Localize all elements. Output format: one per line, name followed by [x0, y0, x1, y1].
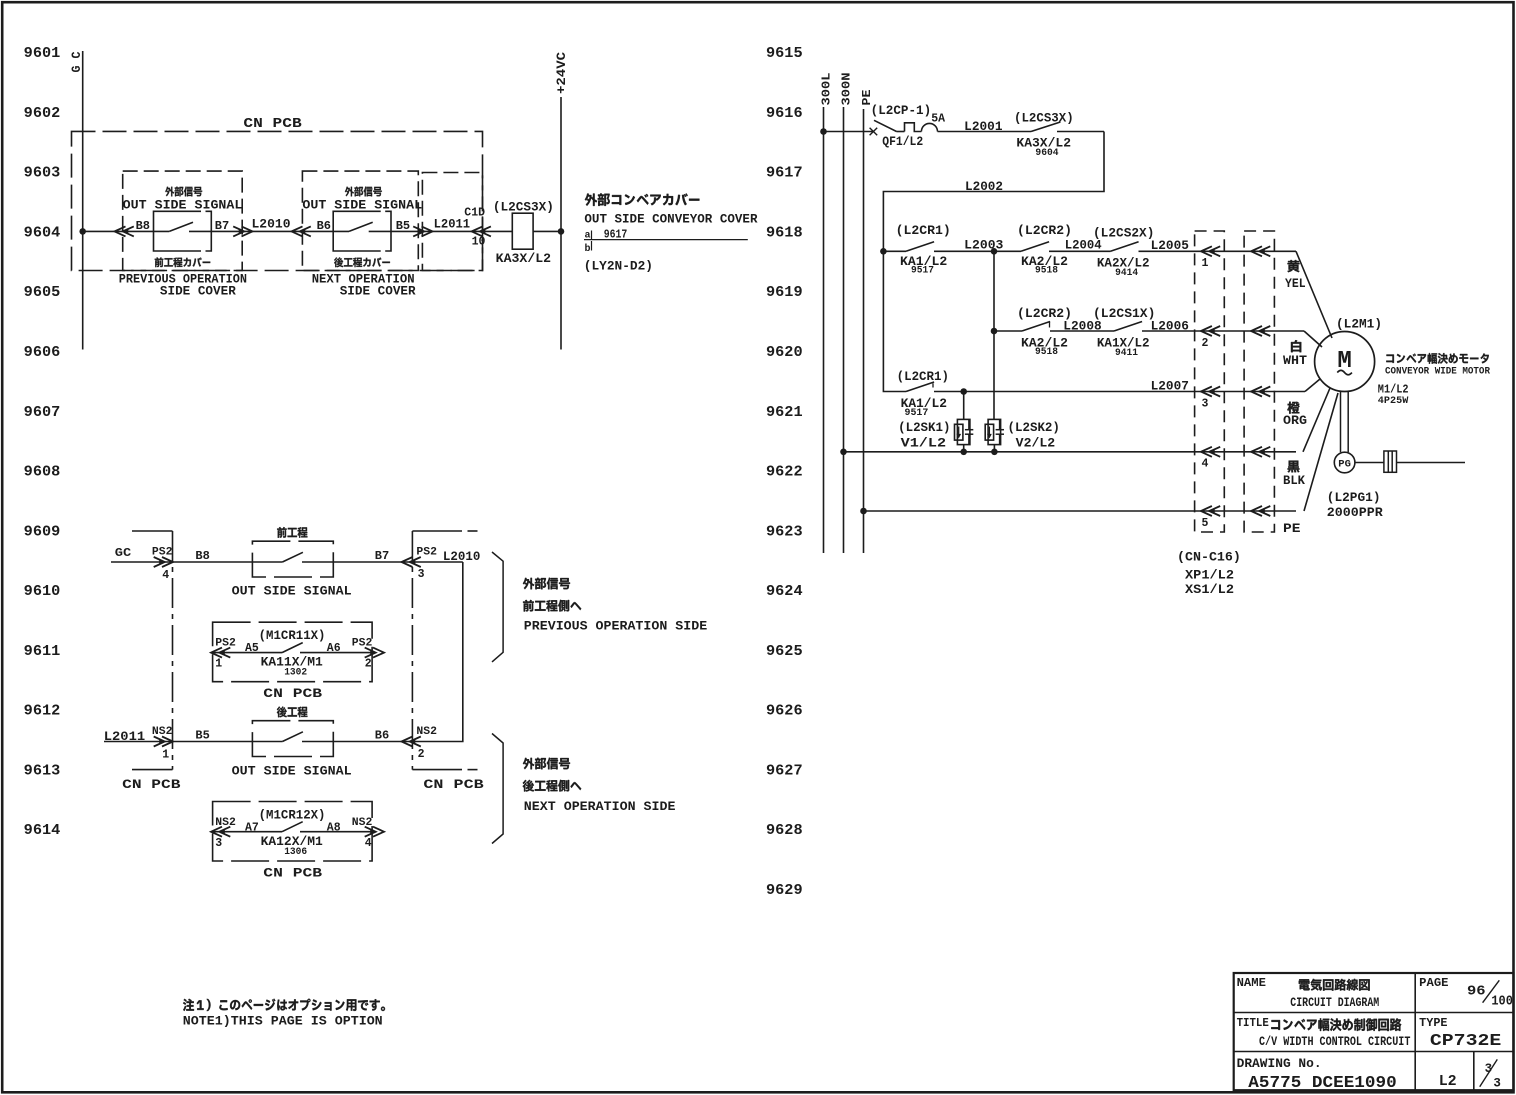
svg-text:NS2: NS2 — [152, 726, 173, 738]
svg-text:(L2CS3X): (L2CS3X) — [493, 201, 554, 215]
svg-text:9628: 9628 — [766, 821, 803, 839]
svg-text:100: 100 — [1491, 994, 1513, 1009]
svg-text:(L2SK2): (L2SK2) — [1008, 421, 1060, 435]
svg-text:L2001: L2001 — [964, 120, 1002, 134]
svg-text:(L2CR1): (L2CR1) — [897, 370, 949, 384]
svg-text:9518: 9518 — [1035, 347, 1058, 358]
svg-text:300N: 300N — [841, 72, 854, 105]
svg-text:V2/L2: V2/L2 — [1016, 436, 1056, 451]
svg-text:9619: 9619 — [766, 283, 803, 301]
svg-text:9622: 9622 — [766, 463, 803, 481]
svg-text:3: 3 — [215, 837, 222, 850]
svg-text:(L2CS3X): (L2CS3X) — [1014, 111, 1074, 125]
svg-text:5: 5 — [1202, 517, 1209, 530]
svg-text:2: 2 — [365, 657, 372, 670]
svg-text:L2002: L2002 — [965, 180, 1003, 194]
svg-text:(L2CS2X): (L2CS2X) — [1093, 227, 1154, 241]
svg-text:A5775 DCEE1090: A5775 DCEE1090 — [1248, 1074, 1396, 1093]
svg-text:NS2: NS2 — [352, 817, 373, 829]
svg-text:9617: 9617 — [766, 164, 803, 182]
svg-text:CN PCB: CN PCB — [263, 686, 322, 701]
svg-text:9604: 9604 — [24, 223, 61, 241]
svg-text:9603: 9603 — [24, 164, 61, 182]
svg-text:L2006: L2006 — [1151, 320, 1189, 334]
svg-text:BLK: BLK — [1283, 474, 1305, 488]
svg-text:A5: A5 — [245, 642, 259, 655]
svg-text:L2008: L2008 — [1063, 320, 1101, 334]
svg-text:YEL: YEL — [1285, 277, 1306, 291]
svg-text:V1/L2: V1/L2 — [901, 436, 947, 451]
svg-text:1302: 1302 — [284, 668, 307, 679]
svg-text:CN PCB: CN PCB — [122, 777, 181, 792]
svg-text:9517: 9517 — [911, 265, 934, 276]
svg-text:QF1/L2: QF1/L2 — [882, 135, 923, 149]
svg-text:CN PCB: CN PCB — [243, 116, 302, 132]
svg-text:1: 1 — [215, 657, 222, 670]
svg-text:9616: 9616 — [766, 104, 803, 122]
svg-text:NS2: NS2 — [416, 726, 437, 738]
svg-text:GC: GC — [115, 546, 131, 560]
svg-text:2: 2 — [418, 748, 425, 761]
svg-text:PE: PE — [1283, 522, 1301, 536]
svg-text:L2010: L2010 — [443, 550, 481, 564]
svg-text:9624: 9624 — [766, 582, 803, 600]
svg-text:PS2: PS2 — [416, 546, 437, 558]
svg-text:9613: 9613 — [24, 761, 61, 779]
svg-text:TYPE: TYPE — [1419, 1017, 1447, 1030]
svg-text:300L: 300L — [821, 72, 834, 105]
svg-text:L2011: L2011 — [104, 730, 145, 744]
svg-text:9625: 9625 — [766, 642, 803, 660]
svg-text:(L2CR2): (L2CR2) — [1017, 224, 1072, 238]
svg-text:L2003: L2003 — [964, 238, 1003, 252]
svg-text:(L2CP-1): (L2CP-1) — [871, 104, 932, 118]
svg-text:(L2CS1X): (L2CS1X) — [1093, 307, 1155, 321]
svg-text:9602: 9602 — [24, 104, 61, 122]
svg-text:9611: 9611 — [24, 642, 61, 660]
svg-text:9615: 9615 — [766, 44, 803, 62]
svg-text:L2011: L2011 — [434, 218, 471, 232]
svg-text:9607: 9607 — [24, 403, 61, 421]
svg-text:9614: 9614 — [24, 821, 61, 839]
svg-text:4: 4 — [365, 837, 372, 850]
svg-text:WHT: WHT — [1283, 354, 1308, 368]
svg-text:9605: 9605 — [24, 283, 61, 301]
svg-text:OUT SIDE SIGNAL: OUT SIDE SIGNAL — [232, 763, 352, 778]
svg-text:CP732E: CP732E — [1430, 1032, 1501, 1051]
svg-text:L2: L2 — [1439, 1073, 1457, 1090]
svg-text:XS1/L2: XS1/L2 — [1185, 583, 1234, 597]
svg-text:9411: 9411 — [1115, 348, 1138, 359]
svg-text:KA3X/L2: KA3X/L2 — [496, 251, 552, 266]
svg-text:OUT SIDE CONVEYOR COVER: OUT SIDE CONVEYOR COVER — [584, 212, 757, 227]
svg-text:A7: A7 — [245, 822, 259, 835]
svg-text:SIDE COVER: SIDE COVER — [340, 283, 416, 298]
svg-text:PS2: PS2 — [152, 546, 173, 558]
svg-text:NS2: NS2 — [215, 817, 236, 829]
svg-text:3: 3 — [1202, 397, 1209, 410]
svg-text:(M1CR12X): (M1CR12X) — [259, 807, 326, 822]
svg-text:9517: 9517 — [905, 408, 929, 419]
svg-text:2000PPR: 2000PPR — [1327, 506, 1384, 520]
svg-text:A8: A8 — [327, 822, 341, 835]
svg-text:(L2CR1): (L2CR1) — [896, 224, 951, 238]
svg-text:B5: B5 — [396, 219, 410, 233]
svg-text:PAGE: PAGE — [1419, 977, 1448, 990]
svg-text:b: b — [585, 243, 591, 255]
svg-text:L2005: L2005 — [1151, 239, 1189, 253]
svg-text:B8: B8 — [195, 549, 209, 563]
svg-text:PREVIOUS OPERATION SIDE: PREVIOUS OPERATION SIDE — [524, 619, 708, 634]
svg-text:B6: B6 — [375, 728, 389, 742]
svg-text:9626: 9626 — [766, 702, 803, 720]
svg-text:9621: 9621 — [766, 403, 803, 421]
svg-text:4P25W: 4P25W — [1378, 395, 1409, 407]
svg-text:OUT SIDE SIGNAL: OUT SIDE SIGNAL — [123, 198, 243, 213]
svg-text:L2010: L2010 — [252, 218, 291, 232]
svg-text:(CN-C16): (CN-C16) — [1177, 551, 1241, 565]
svg-text:9606: 9606 — [24, 343, 61, 361]
svg-text:(L2M1): (L2M1) — [1336, 318, 1382, 332]
svg-text:(L2SK1): (L2SK1) — [898, 421, 950, 435]
svg-text:PE: PE — [861, 89, 874, 105]
svg-text:9629: 9629 — [766, 881, 803, 899]
svg-text:10: 10 — [472, 236, 486, 249]
svg-text:B6: B6 — [317, 219, 331, 233]
svg-text:9518: 9518 — [1035, 265, 1058, 276]
svg-text:4: 4 — [1202, 458, 1209, 471]
svg-text:ORG: ORG — [1283, 414, 1307, 428]
svg-text:CIRCUIT DIAGRAM: CIRCUIT DIAGRAM — [1290, 995, 1379, 1010]
svg-text:CONVEYOR WIDE MOTOR: CONVEYOR WIDE MOTOR — [1385, 366, 1490, 377]
svg-text:L2004: L2004 — [1065, 238, 1102, 252]
svg-text:9604: 9604 — [1035, 148, 1058, 159]
svg-text:PS2: PS2 — [215, 638, 236, 650]
svg-text:(LY2N-D2): (LY2N-D2) — [584, 258, 653, 273]
svg-text:CN PCB: CN PCB — [263, 866, 322, 881]
svg-text:4: 4 — [162, 569, 169, 582]
svg-text:PG: PG — [1338, 459, 1351, 471]
svg-text:C/V WIDTH CONTROL CIRCUIT: C/V WIDTH CONTROL CIRCUIT — [1259, 1034, 1411, 1049]
svg-text:1306: 1306 — [284, 847, 307, 858]
svg-text:9414: 9414 — [1115, 268, 1138, 279]
svg-text:96: 96 — [1467, 985, 1486, 1000]
svg-text:XP1/L2: XP1/L2 — [1185, 569, 1234, 583]
svg-text:B7: B7 — [375, 549, 389, 563]
svg-text:SIDE COVER: SIDE COVER — [160, 283, 236, 298]
svg-text:OUT SIDE SIGNAL: OUT SIDE SIGNAL — [232, 584, 352, 599]
svg-text:B5: B5 — [195, 729, 209, 743]
svg-text:G C: G C — [70, 51, 84, 72]
svg-text:B7: B7 — [215, 219, 229, 233]
svg-text:OUT SIDE SIGNAL: OUT SIDE SIGNAL — [302, 198, 422, 213]
svg-text:9618: 9618 — [766, 223, 803, 241]
svg-text:B8: B8 — [136, 219, 150, 233]
svg-text:9601: 9601 — [24, 44, 61, 62]
svg-text:+24VC: +24VC — [555, 51, 569, 94]
svg-text:9608: 9608 — [24, 463, 61, 481]
svg-text:DRAWING No.: DRAWING No. — [1237, 1057, 1322, 1071]
svg-text:2: 2 — [1202, 337, 1209, 350]
svg-text:3: 3 — [1493, 1077, 1501, 1091]
svg-text:1: 1 — [162, 749, 169, 762]
svg-text:L2007: L2007 — [1151, 379, 1189, 393]
svg-text:5A: 5A — [931, 113, 945, 126]
svg-text:(L2PG1): (L2PG1) — [1327, 491, 1381, 505]
svg-text:1: 1 — [1202, 257, 1209, 270]
svg-text:9610: 9610 — [24, 582, 61, 600]
svg-text:TITLE: TITLE — [1237, 1017, 1269, 1030]
svg-text:9627: 9627 — [766, 761, 803, 779]
svg-text:(M1CR11X): (M1CR11X) — [259, 628, 326, 643]
svg-text:PS2: PS2 — [352, 638, 373, 650]
svg-text:CN PCB: CN PCB — [423, 777, 484, 792]
svg-text:NAME: NAME — [1237, 977, 1266, 990]
svg-text:9612: 9612 — [24, 702, 61, 720]
svg-text:NOTE1)THIS PAGE IS OPTION: NOTE1)THIS PAGE IS OPTION — [183, 1014, 383, 1029]
svg-text:A6: A6 — [327, 642, 341, 655]
svg-text:C1D: C1D — [464, 207, 485, 220]
svg-text:NEXT OPERATION SIDE: NEXT OPERATION SIDE — [524, 799, 676, 814]
svg-text:9623: 9623 — [766, 522, 803, 540]
svg-text:9620: 9620 — [766, 343, 803, 361]
svg-text:9609: 9609 — [24, 522, 61, 540]
svg-text:3: 3 — [418, 568, 425, 581]
